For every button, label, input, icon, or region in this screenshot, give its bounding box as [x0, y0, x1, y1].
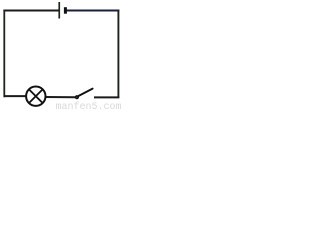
svg-text:manfen5.com: manfen5.com [56, 101, 122, 111]
